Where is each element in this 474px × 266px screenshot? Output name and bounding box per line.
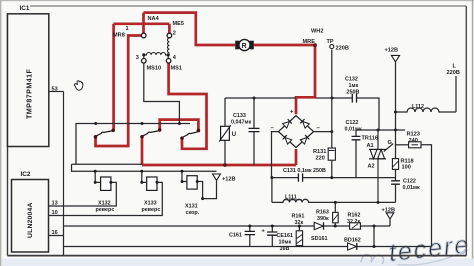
bridge diode bottom-right (300, 135, 309, 144)
wire and inductor L112 (396, 108, 457, 112)
switch S1 blade (97, 131, 113, 136)
varistor U diagonal (219, 125, 231, 141)
svg-text:C122: C122 (346, 120, 359, 126)
wire gate column between bus and R118 (395, 130, 397, 159)
wire red motor right to MRE corner down (254, 45, 315, 114)
node dot R131 bottom at line (330, 176, 333, 179)
wire relay row top line (72, 164, 217, 171)
svg-text:2: 2 (173, 30, 176, 36)
power +12B top triangle (391, 55, 399, 62)
svg-text:реверс: реверс (142, 207, 161, 213)
wire C133 top lead (253, 98, 255, 128)
svg-text:C161: C161 (229, 233, 242, 239)
resistor R161 leads (298, 226, 300, 247)
wire R123 left lead (396, 144, 409, 146)
svg-text:MRE: MRE (303, 39, 316, 45)
capacitor C131 plates (298, 173, 302, 181)
wire red MR8 crossing horizontal (114, 22, 170, 25)
wire X132 left lead (95, 171, 100, 182)
svg-text:TP: TP (327, 39, 334, 45)
diode SD161 (314, 222, 323, 229)
bridge diode top-left (283, 119, 292, 128)
svg-text:C133: C133 (233, 113, 246, 119)
svg-text:ULN2004A: ULN2004A (27, 202, 34, 238)
triac bottom lead (377, 159, 379, 203)
wire and inductor L111 (272, 199, 396, 202)
svg-text:R: R (242, 43, 247, 50)
bottom pale blue strip (2, 259, 474, 266)
svg-text:100: 100 (402, 165, 411, 171)
schematic frame left (7, 14, 9, 256)
svg-text:10мк: 10мк (279, 239, 292, 245)
wire +12B down through L112 node to snubber bus (395, 62, 397, 130)
svg-text:CE161: CE161 (277, 233, 293, 239)
wire red NA4 vertical to terminal 1 (142, 13, 145, 34)
node dot TP line crossing (331, 97, 334, 100)
svg-text:250В: 250В (347, 90, 360, 96)
bridge diamond edges (278, 116, 313, 148)
wire dot4 to circle4 (167, 56, 169, 58)
wire dot3 to circle3 (143, 56, 145, 58)
resistor R163 body (333, 212, 339, 222)
motor M rotor circle (239, 39, 250, 50)
node dots bottom long line (248, 225, 251, 228)
svg-text:NA4: NA4 (148, 16, 160, 22)
switch S2 terminal dots (140, 135, 144, 139)
svg-text:IC2: IC2 (21, 171, 31, 178)
inductor vertical winding (pin2 to pin4) (168, 38, 170, 53)
wire varistor top line to bridge (225, 97, 296, 99)
svg-text:A2: A2 (368, 164, 375, 170)
resistor R131 body (328, 148, 335, 160)
outer screenshot border top (0, 0, 474, 1)
svg-text:0,01мк: 0,01мк (403, 185, 420, 191)
wire red switch S2 bottom down to bus (141, 138, 144, 165)
node dot bridge right at TP column (330, 130, 333, 133)
svg-text:X131: X131 (185, 204, 198, 210)
node dots relay top line (94, 170, 97, 173)
svg-text:L: L (453, 63, 457, 69)
svg-text:C132: C132 (345, 76, 358, 82)
wire X131 right lead to +12B (197, 181, 216, 199)
node winding dot 3 (142, 53, 145, 56)
wire bottom return line (64, 246, 432, 248)
terminal circle 1 (141, 33, 146, 38)
switch S3 blade (183, 132, 198, 137)
resistor R161 body (296, 231, 302, 246)
svg-text:MR8: MR8 (113, 33, 125, 39)
switch S2 blade (143, 131, 159, 136)
outer screenshot border left (0, 0, 1, 266)
wire X133 right lead to IC2 pin10 (49, 182, 163, 215)
test point TP circle (330, 45, 334, 49)
node MRE junction dot (313, 43, 317, 47)
wire long line right part (360, 225, 390, 227)
wire red link switch S2 top to switch S3 top (160, 120, 199, 130)
wire link line to red bus start (72, 163, 143, 165)
node dots relay leads (94, 181, 97, 184)
svg-text:IC1: IC1 (20, 5, 30, 12)
wire +12B bottom to long line (389, 219, 391, 226)
capacitor C122 upper plates (352, 136, 361, 139)
wire bridge right corner to TP column (314, 131, 332, 133)
diode BD162 (348, 243, 357, 250)
svg-text:3: 3 (136, 55, 139, 61)
schematic frame right (465, 6, 467, 256)
terminal circle 3 (142, 59, 147, 64)
hand cursor icon (74, 81, 83, 90)
node winding dot 4 (167, 53, 170, 56)
wire corner up to long line and down to frame bottom (63, 226, 65, 256)
capacitor C161 lead/plates (249, 226, 251, 247)
wire bridge left corner down to C131 line (272, 132, 279, 178)
svg-text:BD162: BD162 (344, 238, 361, 244)
svg-text:скор.: скор. (186, 210, 200, 216)
svg-text:16В: 16В (280, 246, 290, 252)
svg-text:ME5: ME5 (173, 21, 185, 27)
svg-text:SD161: SD161 (311, 236, 327, 242)
node dot bus-S3 (178, 122, 181, 125)
node dot L112 left (394, 111, 397, 114)
svg-text:+12В: +12В (385, 47, 399, 53)
svg-text:1мк: 1мк (349, 83, 359, 89)
svg-text:MS10: MS10 (147, 65, 162, 71)
wire C122 upper bottom lead to C131 line (355, 140, 357, 178)
svg-text:реверс: реверс (96, 207, 115, 213)
outer screenshot border right (472, 0, 474, 266)
relay X131 body (187, 176, 197, 189)
svg-text:+: + (290, 110, 294, 116)
wire red bottom bus to bridge (142, 164, 296, 167)
wire L220B vertical (455, 76, 457, 112)
terminal circle 2 (167, 33, 172, 38)
wire BD162 branch vertical (373, 226, 375, 247)
wire C133 bottom lead (253, 132, 255, 165)
capacitor C133 plates (249, 128, 260, 131)
wire X133 left lead (142, 171, 147, 182)
svg-text:220В: 220В (447, 70, 460, 76)
motor M brush right (250, 41, 254, 50)
svg-text:390к: 390к (317, 216, 329, 222)
relay X133 body (147, 177, 157, 190)
svg-text:R118: R118 (401, 158, 414, 164)
wire red terminal4 down right down to switch S3 bottom (169, 63, 207, 149)
svg-text:C122: C122 (403, 179, 416, 185)
wire red top loop NA4 to motor left (144, 13, 236, 45)
wire terminal3 down step to bus (144, 63, 180, 123)
wire top line bridge to C132 (316, 97, 353, 99)
wire R131 bottom to C131 line (331, 160, 333, 177)
svg-text:1: 1 (126, 26, 129, 32)
wire bus above switches with corner down (76, 124, 190, 165)
bridge diode top-right (300, 119, 309, 128)
wire R123 right lead down right column (421, 145, 432, 247)
op IC1 TMP87PM41F body (8, 14, 49, 147)
wire down from C131 line to L111 (271, 178, 273, 203)
node dot C133 top (253, 97, 256, 100)
triac TR116 symbol (369, 130, 393, 202)
node dot bus-S2 (141, 122, 144, 125)
wire C132 to snubber corner (357, 98, 379, 130)
varistor U body (221, 126, 230, 140)
wire R118 to C122 lower (395, 169, 397, 180)
wire TP down to R131 (331, 49, 333, 148)
wire IC2 pin16 to corner (49, 235, 64, 237)
op IC2 ULN2004A body (12, 180, 49, 253)
wire long line left part (64, 225, 350, 227)
svg-text:U: U (232, 132, 236, 138)
wire varistor bottom lead (224, 141, 226, 166)
node dot L111 line triac A2 (377, 201, 380, 204)
motor M brush left (235, 41, 239, 50)
wire varistor top lead (224, 98, 226, 126)
svg-text:MS1: MS1 (171, 65, 183, 71)
schematic frame top (30, 5, 466, 7)
capacitor C132 plates on y98 line (352, 94, 356, 103)
node dot C131 line left (270, 176, 273, 179)
node dot triac top at bus (377, 129, 380, 132)
wire pin53 from IC1 (49, 91, 64, 93)
svg-text:0,047мк: 0,047мк (231, 119, 251, 125)
relay X132 body (101, 177, 111, 190)
node bus-varistor junction dot (223, 163, 227, 167)
node dot gate vertical at bus (394, 129, 397, 132)
wire pin53 vertical bus down left side (63, 92, 65, 227)
svg-text:R161: R161 (292, 214, 305, 220)
node dot L111 line R163 (334, 201, 337, 204)
triac top lead (377, 130, 379, 149)
power +12B bottom triangle (386, 213, 394, 219)
wire C131 line right part (303, 177, 396, 179)
inductor horizontal winding (pin3 to pin4) (145, 52, 166, 54)
bridge diode bottom-left (283, 135, 292, 144)
switch S1 terminal dots (94, 135, 98, 139)
resistor R162 body (350, 223, 361, 229)
resistor R118 body (392, 159, 398, 170)
triac gate lead (384, 144, 393, 152)
watermark script "tecere" (359, 231, 472, 266)
svg-text:0,01мк: 0,01мк (345, 127, 362, 133)
svg-text:R163: R163 (316, 209, 329, 215)
wire red bridge bottom to bus (295, 149, 298, 165)
wire X132 right lead to IC2 pin13 (49, 182, 117, 206)
svg-text:220В: 220В (336, 45, 349, 51)
wire red MR8 down to switch S1 top (112, 24, 115, 129)
resistor R123 body (409, 142, 421, 148)
svg-text:A1: A1 (367, 143, 374, 149)
node dot bus-S1 (94, 122, 97, 125)
capacitor C122 upper lead from bus (355, 130, 357, 136)
svg-text:R131: R131 (313, 149, 326, 155)
power +12B mid triangle (213, 174, 221, 180)
svg-text:R162: R162 (348, 212, 361, 218)
svg-text:+12В: +12В (222, 177, 236, 183)
svg-text:R123: R123 (407, 132, 420, 138)
svg-text:TR116: TR116 (362, 136, 378, 142)
svg-text:TMP87PM41F: TMP87PM41F (25, 68, 34, 119)
capacitor C122 lower plates (391, 181, 400, 184)
svg-text:WH2: WH2 (311, 28, 323, 34)
wire C131 line left part (272, 177, 298, 179)
wire X131 left lead (182, 171, 187, 181)
svg-text:220: 220 (316, 155, 325, 161)
switch S3 terminal dots (180, 136, 184, 140)
terminal circle 4 (166, 59, 171, 64)
wire C122 lower to L111 line (395, 184, 397, 202)
wire red terminal1 left and down to switch S1 bottom (96, 36, 142, 147)
schematic frame bottom (8, 255, 467, 257)
resistor R163 leads (334, 202, 336, 226)
capacitor CE161 lead/plates (271, 226, 273, 247)
svg-text:X133: X133 (144, 200, 157, 206)
svg-text:C131 0,1мк 250В: C131 0,1мк 250В (283, 168, 326, 174)
wire red ME5 down to terminal 2 (168, 24, 171, 33)
wire snubber bus y130 (356, 129, 405, 131)
